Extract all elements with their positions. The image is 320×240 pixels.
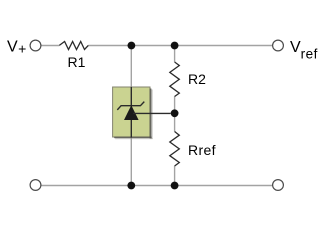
terminal V+ <box>30 40 41 51</box>
svg-text:V+: V+ <box>7 39 26 57</box>
resistor Rref zigzag <box>170 132 180 167</box>
wire zener branch vertical <box>130 46 132 186</box>
highlight box around zener U1 <box>113 87 150 137</box>
junction node top-right <box>171 42 179 50</box>
svg-text:R2: R2 <box>188 71 206 87</box>
junction node top-left <box>127 42 135 50</box>
terminal bottom-right <box>273 180 284 191</box>
svg-text:Vref: Vref <box>290 39 318 61</box>
wire bottom rail <box>41 185 273 187</box>
zener triangle <box>124 105 139 120</box>
wire divider branch upper stub <box>174 46 176 63</box>
terminal Vref <box>273 40 284 51</box>
wire top rail right segment <box>88 45 272 47</box>
wire divider branch middle stub <box>174 97 176 132</box>
zener lead inside box <box>130 87 132 138</box>
resistor R1 zigzag <box>59 42 88 50</box>
ref lead wire to divider node <box>133 112 171 114</box>
zener cathode bar <box>117 102 144 110</box>
svg-text:Rref: Rref <box>188 142 216 158</box>
junction node middle <box>171 109 179 117</box>
wire top rail left segment <box>41 45 59 47</box>
junction node bottom-right <box>171 182 179 190</box>
terminal bottom-left <box>30 180 41 191</box>
junction node bottom-left <box>127 182 135 190</box>
svg-text:R1: R1 <box>68 54 86 70</box>
wire divider branch lower stub <box>174 166 176 186</box>
resistor R2 zigzag <box>170 62 180 97</box>
